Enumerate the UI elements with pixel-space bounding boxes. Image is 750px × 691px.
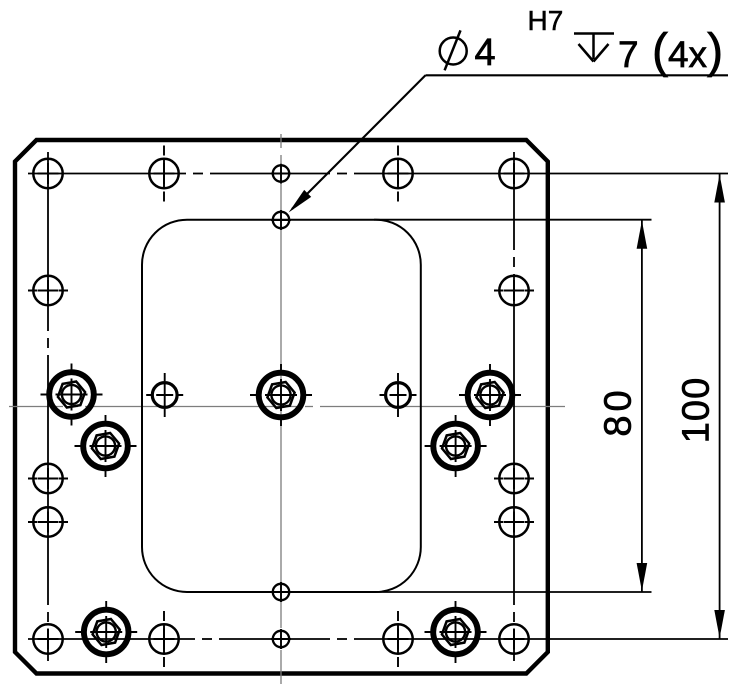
bottom hole row centerline y=639 (also 100-dim extension) — [28, 638, 728, 640]
top hole row centerline y=173.5 (also 100-dim extension) — [28, 173, 728, 175]
svg-text:100: 100 — [676, 377, 718, 443]
leader horizontal shoulder — [426, 74, 729, 76]
arrowhead 80 bottom — [637, 563, 648, 591]
hole A1 d7 through-hole at (48,173.5) — [33, 159, 62, 188]
hole S2 d4 H7 dowel hole at (281,220) — [271, 210, 291, 230]
hole S3 d4 H7 dowel hole at (281,592) — [271, 582, 291, 602]
svg-text:4: 4 — [475, 32, 496, 74]
hole A5 d7 through-hole at (48,290.5) — [28, 276, 68, 305]
vertical centerline (plate axis x=281) — [280, 134, 282, 684]
hole A13 d7 through-hole at (398,639) — [383, 611, 412, 667]
hole A12 d7 through-hole at (164,639) — [149, 611, 178, 667]
counterbored screw hole C7 with hex socket at (455.5,632) — [425, 601, 487, 663]
hole B1 threaded hole at (164.7,395) — [146, 373, 183, 417]
plate outline — [15, 140, 548, 674]
hole A8 d7 through-hole at (514,478.5) — [494, 464, 534, 493]
left hole column centerline x=48 — [47, 152, 49, 661]
dimension line 80 (vertical x=641.9) — [641, 220, 643, 592]
arrowhead 100 top — [714, 175, 725, 203]
hole A6 d7 through-hole at (514,290.5) — [494, 276, 534, 305]
dimension line 100 (vertical x=719.6) — [719, 174, 721, 640]
pocket rounded rectangle — [142, 220, 421, 592]
svg-text:H7: H7 — [528, 5, 564, 36]
arrowhead 80 top — [637, 221, 648, 249]
hole A9 d7 through-hole at (48,522) — [28, 507, 68, 536]
horizontal centerline (plate axis y=406.5) — [9, 406, 565, 408]
hole A7 d7 through-hole at (48,478.5) — [28, 464, 68, 493]
hole S1 d4 H7 dowel hole at (281,173.5) — [271, 164, 291, 184]
hole A14 d7 through-hole at (514,639) — [499, 624, 528, 653]
counterbored screw hole C3 with hex socket at (490,395) — [459, 364, 521, 426]
hole A4 d7 through-hole at (514,173.5) — [499, 159, 528, 188]
leader diagonal line — [292, 75, 426, 209]
diameter symbol — [440, 30, 467, 70]
counterbored screw hole C5 with hex socket at (455.6,446) — [425, 415, 487, 477]
counterbored screw hole C1 with hex socket at (71.5,394.5) — [41, 364, 103, 426]
counterbored screw hole C6 with hex socket at (106.2,632) — [75, 601, 137, 663]
hole B2 threaded hole at (398,395) — [380, 373, 417, 417]
depth symbol — [574, 34, 614, 62]
arrowhead 100 bottom — [714, 610, 725, 638]
svg-text:7: 7 — [618, 34, 639, 75]
hole S4 d4 H7 dowel hole at (281,639) — [271, 629, 291, 649]
leader arrowhead at hole S2 — [289, 190, 312, 213]
hole A10 d7 through-hole at (514,522) — [494, 507, 534, 536]
extension line bottom of pocket y=592 — [374, 591, 652, 593]
svg-text:80: 80 — [598, 386, 640, 436]
hole A11 d7 through-hole at (48,639) — [33, 624, 62, 653]
hole A2 d7 through-hole at (164,173.5) — [149, 146, 178, 202]
hole A3 d7 through-hole at (398,173.5) — [383, 146, 412, 202]
right hole column centerline x=514 — [513, 152, 515, 661]
counterbored screw hole C4 with hex socket at (105.5,446) — [75, 415, 137, 477]
counterbored screw hole C2 with hex socket at (281,395) — [250, 364, 312, 426]
extension line top of pocket y=219.7 — [374, 219, 652, 221]
